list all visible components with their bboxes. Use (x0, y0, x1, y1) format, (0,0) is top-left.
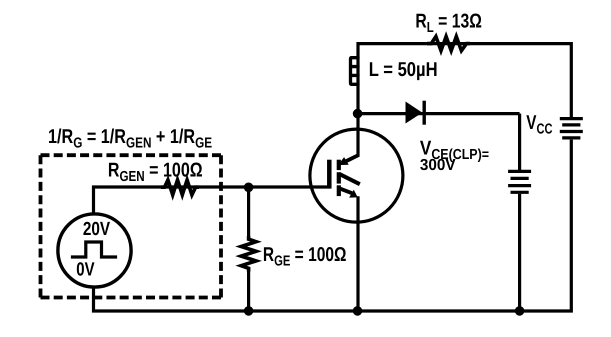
svg-text:L = 50µH: L = 50µH (369, 59, 438, 81)
svg-text:RL = 13Ω: RL = 13Ω (415, 11, 481, 37)
svg-text:300V: 300V (420, 157, 456, 174)
svg-text:0V: 0V (76, 260, 95, 281)
svg-text:20V: 20V (83, 219, 111, 240)
